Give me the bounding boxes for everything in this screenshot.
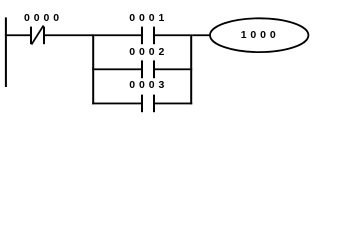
contact 0002 right bar xyxy=(153,60,155,78)
branch 3 wire right xyxy=(155,103,192,105)
label 0001 xyxy=(129,13,168,24)
branch 2 wire right xyxy=(155,68,192,70)
right junction vertical wire xyxy=(190,34,192,104)
wire contact 0001 to right junction xyxy=(155,34,190,36)
label 1000 xyxy=(241,30,280,41)
branch 2 wire left xyxy=(92,68,141,70)
left power rail xyxy=(5,17,7,87)
label 0003 xyxy=(129,80,168,91)
left junction vertical wire xyxy=(92,34,94,104)
wire junction to contact 0001 xyxy=(94,34,141,36)
contact 0000 NC slash xyxy=(32,26,44,45)
output coil 1000 ellipse xyxy=(210,18,308,52)
contact 0000 left bar xyxy=(30,27,32,45)
contact 0002 left bar xyxy=(141,60,143,78)
label 0002 xyxy=(129,47,168,58)
wire NC contact to left junction xyxy=(45,34,94,36)
wire rail to NC contact xyxy=(5,34,30,36)
contact 0003 right bar xyxy=(153,95,155,113)
contact 0003 left bar xyxy=(141,95,143,113)
contact 0000 right bar xyxy=(43,27,45,45)
wire right junction to coil xyxy=(192,34,210,36)
contact 0001 right bar xyxy=(153,27,155,45)
branch 3 wire left xyxy=(92,103,141,105)
contact 0001 left bar xyxy=(141,27,143,45)
label 0000 xyxy=(24,13,63,24)
